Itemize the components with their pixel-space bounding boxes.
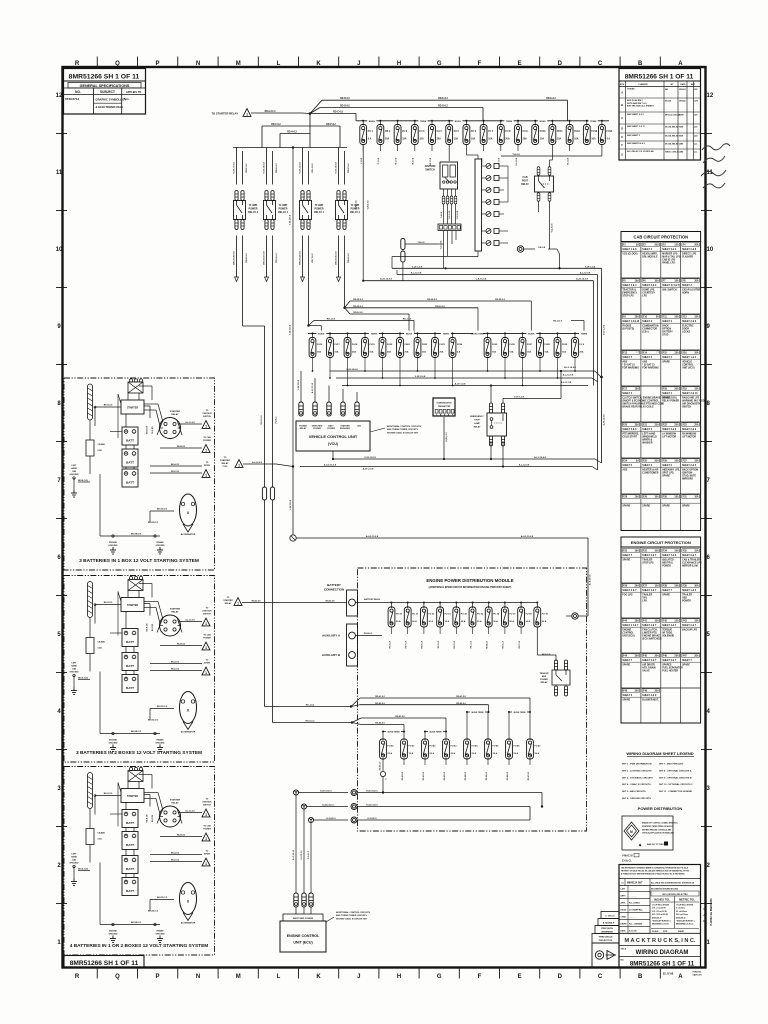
svg-text:FU20: FU20 [387, 344, 393, 346]
svg-text:F21: F21 [643, 425, 648, 427]
engine protection row y653 [621, 653, 701, 673]
wire E-24 run 2 [301, 804, 543, 821]
label left hand cab ground box 2 [70, 663, 79, 674]
svg-text:WASHER: WASHER [642, 442, 652, 445]
wire V-LF-1-0.8 to emergency relay [502, 399, 504, 404]
wire RD-42-5.0 epdm lower [352, 723, 361, 725]
wire RD-62-5.0 epdm [351, 705, 360, 707]
svg-text:GRAPHIC SYMBOLOGY: GRAPHIC SYMBOLOGY [96, 97, 127, 101]
title block top-left: 8MR51266 SH 1 OF 11 [64, 69, 146, 115]
svg-text:V-LF-1-0.8: V-LF-1-0.8 [514, 397, 525, 399]
starter box 3 [121, 782, 144, 803]
svg-text:FRAME: FRAME [156, 930, 164, 933]
svg-text:ABS: ABS [622, 360, 627, 363]
wire SP-A-5.0 from fuse 39 [536, 628, 538, 656]
svg-text:A-LF-2-0.8: A-LF-2-0.8 [363, 468, 374, 471]
svg-text:10A: 10A [674, 496, 679, 499]
svg-text:BR-29-46-0.8: BR-29-46-0.8 [233, 251, 236, 265]
svg-text:* *: * * [656, 353, 659, 355]
svg-text:FU 33: FU 33 [445, 614, 452, 616]
svg-text:FU 9: FU 9 [523, 131, 529, 133]
wire BK-DD cable box 1 [140, 509, 174, 525]
svg-text:SHEET 3 & 7: SHEET 3 & 7 [662, 660, 677, 662]
svg-text:SEE SHEET 4 & 5: SEE SHEET 4 & 5 [627, 113, 644, 116]
svg-text:STARTER: STARTER [127, 407, 138, 410]
fuse FU 42 20 A epdm row2 [422, 739, 437, 780]
svg-text:TERM: TERM [581, 333, 587, 335]
svg-text:BK-HB-1/0: BK-HB-1/0 [131, 534, 142, 536]
svg-text:10A: 10A [694, 496, 699, 499]
svg-text:30 A: 30 A [445, 620, 450, 623]
svg-text:SWITCH: SWITCH [203, 805, 211, 807]
engine protection row y618 [621, 618, 701, 641]
svg-text:DIRECT. LPS: DIRECT. LPS [682, 253, 697, 255]
buss term segment fuses 46 47 [508, 710, 531, 740]
grid column letters top [75, 61, 683, 67]
svg-text:25 A: 25 A [388, 752, 393, 755]
svg-text:C: C [598, 61, 603, 67]
svg-text:FU 5: FU 5 [454, 131, 460, 133]
wire relay 3 output to epdm cable [242, 236, 244, 327]
svg-text:CAB ID LPS: CAB ID LPS [662, 259, 675, 262]
svg-text:SHEET 7 & 9: SHEET 7 & 9 [662, 555, 677, 557]
svg-text:15A: 15A [694, 550, 699, 553]
buss term segment fuses 40 41 [382, 729, 405, 740]
svg-text:CIGAR LIGHTER: CIGAR LIGHTER [682, 288, 700, 291]
svg-text:BATTERY BUSS: BATTERY BUSS [364, 598, 381, 601]
svg-text:TO: TO [206, 660, 209, 662]
svg-text:EPDM: EPDM [204, 663, 210, 665]
svg-text:F12: F12 [683, 317, 688, 319]
svg-text:A-LJ-2-0.8: A-LJ-2-0.8 [185, 810, 194, 813]
svg-text:20A: 20A [635, 585, 640, 588]
fuse FU26 15A vcu row [502, 332, 516, 379]
svg-text:5A: 5A [656, 316, 659, 319]
svg-text:GENERAL SPECIFICATIONS: GENERAL SPECIFICATIONS [80, 84, 130, 88]
svg-text:V-MAC III: V-MAC III [622, 855, 633, 858]
svg-text:E-2-13-1.0: E-2-13-1.0 [301, 851, 303, 860]
svg-text:POWER: POWER [203, 440, 211, 442]
svg-text:SHOWN V-MAC III CIRCUIT SHT: SHOWN V-MAC III CIRCUIT SHT [336, 917, 368, 920]
svg-text:10A: 10A [674, 460, 679, 463]
svg-text:B: B [638, 61, 643, 67]
svg-text:POWER: POWER [540, 679, 548, 681]
svg-text:RD-K-5.0: RD-K-5.0 [454, 641, 456, 649]
svg-text:BLO RD: BLO RD [152, 426, 154, 434]
svg-text:UNIT (VCU): UNIT (VCU) [682, 368, 695, 370]
svg-text:ENGINE BRAKE: ENGINE BRAKE [642, 635, 660, 638]
svg-text:K: K [316, 974, 321, 980]
fuse FU19 10A vcu row [362, 332, 376, 372]
svg-text:HIDEAWAY LPS,: HIDEAWAY LPS, [662, 468, 680, 471]
svg-text:INCL (INCHES) SELECTED: INCL (INCHES) SELECTED [662, 894, 688, 896]
svg-text:20A: 20A [635, 690, 640, 693]
fusible link strip box 3 [88, 773, 93, 829]
svg-text:20A: 20A [579, 351, 583, 354]
svg-text:SHEET 5: SHEET 5 [622, 357, 632, 359]
svg-text:SPARE (VCU): SPARE (VCU) [662, 396, 677, 399]
svg-text:LD3: LD3 [694, 114, 697, 116]
wire fuse drop to ignition switch [448, 144, 450, 161]
svg-text:IGN. SWITCH: IGN. SWITCH [662, 289, 677, 291]
svg-text:20A: 20A [694, 280, 699, 283]
svg-text:RADIO IND LPS: RADIO IND LPS [682, 396, 700, 399]
svg-text:POWER: POWER [203, 638, 211, 640]
svg-text:ADDITIONAL CONTROL CIRCUITS: ADDITIONAL CONTROL CIRCUITS [387, 425, 422, 428]
svg-text:6T2G5712: 6T2G5712 [65, 97, 80, 101]
svg-text:SH 1-5B+5C, FU 31 RM 5-4B: SH 1-5B+5C, FU 31 RM 5-4B [627, 150, 654, 153]
svg-text:RD-B-6.0: RD-B-6.0 [364, 633, 373, 635]
ground left hand box 2 [71, 674, 90, 694]
svg-text:V-29-13-0.8: V-29-13-0.8 [290, 325, 292, 335]
svg-text:TRAILER: TRAILER [642, 593, 652, 596]
svg-text:WINDSHIELD: WINDSHIELD [642, 437, 657, 439]
svg-text:SHEET: SHEET [678, 931, 685, 933]
fusible link strip box 1 [88, 384, 93, 440]
svg-text:TO: TO [206, 851, 209, 853]
svg-text:P: P [155, 974, 159, 980]
svg-text:F47: F47 [683, 655, 688, 658]
svg-text:MIRROR ILUM.: MIRROR ILUM. [682, 566, 699, 568]
fuse FU20 20A vcu row [379, 332, 393, 379]
svg-text:SEE SHEETS 4 & 5: SEE SHEETS 4 & 5 [627, 142, 646, 145]
battery 2 box 2 [122, 653, 138, 671]
svg-text:2 PL .X =±.030 IN: 2 PL .X =±.030 IN [652, 908, 666, 910]
svg-text:T-A-0.8: T-A-0.8 [512, 153, 520, 156]
cab post relay K5 [521, 167, 553, 202]
svg-text:A-23-10-0.8: A-23-10-0.8 [380, 278, 392, 281]
svg-text:SPARES: SPARES [662, 663, 672, 666]
svg-text:F38: F38 [663, 586, 668, 588]
wire RD-61-5.0 epdm [265, 706, 352, 708]
svg-text:8: 8 [187, 709, 189, 713]
svg-text:BACKUP LPS: BACKUP LPS [682, 628, 697, 631]
svg-text:ABS: ABS [622, 468, 627, 471]
svg-text:10A: 10A [635, 280, 640, 283]
svg-text:SPARE: SPARE [642, 504, 650, 507]
engine protection row y548 [621, 549, 702, 568]
title block top-right: 8MR51266 SH 1 OF 11 revision table [619, 69, 701, 161]
triangle to cab power box 1 [160, 436, 211, 452]
frame ground symbol box 2 [156, 739, 165, 752]
battery 3 box 2 [122, 675, 138, 693]
svg-text:COMBINATION: COMBINATION [642, 324, 659, 327]
battery system enclosure 2 [64, 576, 215, 763]
engine ground symbol box 1 [109, 542, 118, 554]
svg-text:TRAILER: TRAILER [539, 672, 549, 675]
title block small grid rows [619, 886, 701, 934]
fuse FU25 10A vcu row [484, 332, 498, 372]
svg-text:20A: 20A [694, 244, 699, 247]
wires below ignition connector [441, 231, 457, 269]
svg-text:F19: F19 [683, 389, 688, 391]
wire right side vertical drop [601, 276, 603, 463]
svg-text:C4B: C4B [72, 470, 77, 473]
svg-text:BLO RD: BLO RD [152, 623, 154, 631]
svg-text:RD-M-5.0: RD-M-5.0 [487, 641, 489, 649]
triangle to ignition switch box 1 [178, 410, 212, 428]
wire starter to relay mesh box 3 [118, 775, 163, 827]
svg-text:F44: F44 [623, 655, 628, 658]
svg-text:OAMY-97S: OAMY-97S [692, 974, 702, 977]
svg-text:ABS: ABS [542, 675, 547, 678]
alternator box 2 [180, 692, 197, 734]
svg-text:10A: 10A [694, 352, 699, 355]
svg-text:F22: F22 [663, 425, 668, 427]
svg-text:COMMUNICATION: COMMUNICATION [436, 402, 452, 405]
svg-text:20A: 20A [674, 585, 679, 588]
wire long drop fuse 1 cab row [362, 144, 364, 281]
wiring diagram title [619, 949, 701, 957]
wire BK-H cable box 3 [94, 793, 121, 815]
svg-text:______: ______ [628, 917, 637, 919]
svg-text:RD-P-6.2: RD-P-6.2 [326, 124, 336, 126]
svg-text:BK-A-1/2: BK-A-1/2 [171, 463, 179, 466]
relay K2 70 amp power relay 2 [336, 191, 348, 230]
svg-text:0.5A: 0.5A [98, 647, 103, 650]
engine ground symbol box 2 [109, 740, 118, 752]
svg-text:FU 1: FU 1 [368, 131, 374, 133]
svg-text:(ADDITIONAL EPDM CIRCUIT INFOR: (ADDITIONAL EPDM CIRCUIT INFORMATION ON … [429, 586, 512, 589]
cab protection row y422 [621, 422, 701, 445]
fuse FU 4 20A cab row [429, 120, 443, 166]
svg-text:10A: 10A [369, 351, 373, 354]
svg-text:L: L [277, 61, 281, 67]
svg-text:TERM: TERM [590, 121, 596, 123]
warning note box with diamond [622, 816, 678, 850]
svg-text:NOTE BAR RM 7 & 5,: NOTE BAR RM 7 & 5, [627, 102, 647, 105]
vmac label [622, 854, 639, 863]
svg-text:JW9-4D: JW9-4D [679, 99, 686, 102]
svg-text:BUSS: BUSS [369, 121, 376, 123]
svg-text:AND THESE POWER CIRCUITS: AND THESE POWER CIRCUITS [336, 914, 367, 917]
engine circuit protection table [621, 537, 701, 723]
svg-text:20 A: 20 A [535, 752, 540, 755]
svg-text:ISOLATED: ISOLATED [662, 558, 674, 561]
svg-text:LOCKS: LOCKS [682, 332, 691, 334]
svg-text:ADD FU 44 RM 7,: ADD FU 44 RM 7, [627, 99, 644, 102]
fuse FU11 10A cab row [549, 120, 563, 145]
svg-text:20A: 20A [655, 244, 660, 247]
svg-text:G: G [437, 61, 442, 67]
svg-text:RD-41-5.0: RD-41-5.0 [395, 715, 405, 718]
svg-text:SHEET 2 & 8: SHEET 2 & 8 [682, 249, 697, 251]
battery 1 box 3 [122, 810, 138, 828]
svg-text:SEE SHEET 5: SEE SHEET 5 [627, 135, 641, 137]
fuse FU17 10A vcu row [327, 332, 341, 379]
svg-text:F17: F17 [623, 389, 628, 391]
svg-text:SWITCH: SWITCH [203, 614, 211, 616]
svg-text:FU-A-2: FU-A-2 [274, 416, 277, 424]
svg-text:GROUND: GROUND [109, 545, 118, 547]
svg-text:20A: 20A [439, 351, 443, 354]
node main power junction [309, 112, 312, 115]
starter box 1 [121, 393, 144, 414]
svg-text:TRANSMITTER: TRANSMITTER [438, 405, 451, 408]
svg-text:F13: F13 [623, 353, 628, 355]
svg-text:SHEET 2 & 7: SHEET 2 & 7 [622, 590, 637, 592]
svg-text:10A: 10A [574, 138, 579, 141]
svg-text:FAN CLUTCH,: FAN CLUTCH, [642, 628, 658, 631]
wire A-23-10-0.8 long run [363, 280, 593, 282]
svg-text:(VCU): (VCU) [328, 442, 339, 446]
svg-text:RD-D-6.2: RD-D-6.2 [438, 106, 448, 108]
svg-text:30 A: 30 A [428, 620, 433, 623]
svg-text:CHANGE: CHANGE [638, 83, 648, 86]
circuit breaker CB-84B box 2 [86, 638, 105, 672]
fuse CB 2 20A cab row [377, 120, 391, 164]
svg-text:S-(B+)-1.0: S-(B+)-1.0 [446, 431, 448, 441]
svg-text:ANGLES ±1°: ANGLES ±1° [652, 916, 662, 919]
svg-text:BK-DD-1/0: BK-DD-1/0 [157, 509, 168, 511]
svg-text:SPOT LPS,: SPOT LPS, [662, 473, 674, 475]
svg-text:ADDITIONAL CONTROL CIRCUITS: ADDITIONAL CONTROL CIRCUITS [336, 911, 371, 914]
svg-text:15A: 15A [674, 620, 679, 623]
svg-text:RELAY: RELAY [171, 611, 179, 614]
svg-text:CHKD: CHKD [621, 917, 627, 919]
svg-text:RD-T-6.2: RD-T-6.2 [312, 253, 314, 263]
svg-text:ABS: ABS [682, 597, 687, 600]
svg-text:TO: TO [206, 608, 209, 610]
svg-text:X =±0.8mm: X =±0.8mm [676, 908, 685, 910]
svg-text:FOG LPS: FOG LPS [622, 594, 633, 596]
svg-text:BUSS: BUSS [406, 333, 413, 335]
cab protection row y314 [621, 314, 701, 337]
svg-text:BWM: BWM [679, 114, 684, 116]
svg-text:SHEET 4: SHEET 4 [662, 392, 672, 395]
svg-text:BK-H-1/0: BK-H-1/0 [104, 405, 113, 407]
ground left hand box 3 [71, 865, 90, 885]
svg-text:AUXILARY B: AUXILARY B [322, 653, 341, 657]
svg-text:20 A: 20 A [509, 620, 514, 623]
svg-text:8: 8 [187, 900, 189, 904]
svg-text:D: D [558, 974, 563, 980]
svg-text:ALL: ALL [124, 97, 130, 101]
svg-text:STUD, NOTE: STUD, NOTE [682, 476, 696, 478]
wire E-2-4 run 3 [308, 817, 530, 823]
wire junction block feed from fuse [465, 144, 467, 155]
svg-text:D.CHAPPELL: D.CHAPPELL [629, 909, 644, 912]
vcu fuse bus wire [308, 332, 585, 334]
svg-text:VOIDED: VOIDED [627, 89, 635, 91]
bus labels BUSS TERM vcu row [316, 331, 589, 336]
svg-text:LIFT MOTOR: LIFT MOTOR [662, 437, 676, 439]
svg-text:AIR DIAGNOSTIC: AIR DIAGNOSTIC [682, 403, 701, 406]
svg-text:TO: TO [227, 597, 230, 599]
svg-text:10A: 10A [635, 550, 640, 553]
svg-text:20 A: 20 A [493, 752, 498, 755]
svg-text:DOOR: DOOR [682, 329, 689, 331]
svg-text:H: H [397, 61, 401, 67]
svg-text:CLEARANCE LPS: CLEARANCE LPS [682, 562, 702, 565]
svg-text:SHEET 1 4 & 7: SHEET 1 4 & 7 [622, 624, 639, 627]
svg-text:V-29-18-0.8: V-29-18-0.8 [264, 162, 266, 174]
svg-text:1 N UP WILL SHOWN: 1 N UP WILL SHOWN [652, 905, 670, 907]
battery interconnect wires box 1 [110, 414, 134, 469]
svg-text:E-20-10-D.0: E-20-10-D.0 [320, 791, 332, 793]
svg-text:A-LJ-2-0.8: A-LJ-2-0.8 [185, 421, 194, 424]
fuse FU13 10A cab row [583, 120, 597, 145]
fuse FU 31 20 A epdm row1 [404, 602, 419, 649]
wire V-29-13-0.8 bottom run [333, 458, 595, 460]
svg-text:20A: 20A [385, 138, 390, 141]
svg-text:JMM: JMM [679, 143, 683, 145]
svg-text:20A: 20A [437, 138, 442, 141]
svg-text:FU 30: FU 30 [396, 614, 403, 616]
fuse FU 33 30 A epdm row1 [437, 602, 452, 649]
svg-text:MC11B JW9-4W: MC11B JW9-4W [665, 134, 679, 137]
svg-text:FUEL SEPARATOR: FUEL SEPARATOR [662, 667, 683, 670]
frame ground symbol box 3 [156, 930, 165, 943]
svg-text:30 A: 30 A [461, 620, 466, 623]
svg-text:SHT 9 - OPTIONAL CIRCUITS B: SHT 9 - OPTIONAL CIRCUITS B [659, 776, 692, 779]
svg-text:RD-47-5.0: RD-47-5.0 [527, 772, 530, 780]
svg-text:BK-H-1/0: BK-H-1/0 [104, 602, 113, 604]
svg-text:RD-J-6.2: RD-J-6.2 [312, 163, 314, 173]
svg-text:IGN: IGN [357, 426, 361, 428]
svg-text:RD-W-5.2: RD-W-5.2 [495, 299, 505, 301]
svg-text:FU27: FU27 [527, 344, 533, 346]
svg-text:25A: 25A [674, 424, 679, 427]
svg-text:V-21-2-0.8: V-21-2-0.8 [457, 211, 459, 219]
title block bottom-left repeat [64, 956, 144, 968]
svg-text:F37: F37 [643, 586, 648, 588]
svg-text:GROUND: GROUND [70, 474, 79, 476]
svg-text:E-2-4-D.0: E-2-4-D.0 [367, 817, 377, 820]
svg-text:* ANGULAR RUNOUT ±: * ANGULAR RUNOUT ± [676, 920, 695, 923]
svg-text:RELAY 4: RELAY 4 [278, 211, 289, 214]
svg-text:SHEET 1 & 4: SHEET 1 & 4 [682, 356, 697, 359]
vcu connector pins [299, 395, 359, 416]
third angle projection symbol [595, 951, 616, 960]
battery 2 box 1 [122, 449, 138, 467]
svg-text:R.L. LISMAN: R.L. LISMAN [629, 923, 643, 926]
svg-text:K: K [316, 61, 321, 67]
svg-text:FU 32: FU 32 [428, 614, 435, 616]
svg-text:V-29-13-0.8: V-29-13-0.8 [290, 215, 292, 225]
svg-text:POWER: POWER [682, 601, 691, 603]
fuse FU 35 20 A epdm row1 [469, 602, 484, 649]
svg-text:FU18: FU18 [352, 344, 358, 346]
svg-text:BACK: BACK [662, 324, 669, 327]
svg-text:12: 12 [56, 93, 63, 99]
wire E-20 run 1 [293, 790, 542, 807]
wire RD-W-5.2 branch middle [345, 307, 479, 309]
svg-text:W-1-0.8: W-1-0.8 [567, 158, 569, 165]
alternator box 1 [180, 494, 197, 536]
svg-text:PTE MIRRORS,: PTE MIRRORS, [622, 433, 639, 435]
svg-text:FRAME: FRAME [156, 739, 164, 742]
svg-text:CAB: CAB [523, 176, 528, 179]
fuse FU27 15A vcu row [519, 332, 533, 386]
svg-text:CONDITIONER: CONDITIONER [642, 473, 658, 475]
svg-text:10A: 10A [635, 496, 640, 499]
svg-text:* *: * * [636, 353, 639, 355]
svg-text:SHT 7 - ENG PWR DIST: SHT 7 - ENG PWR DIST [659, 764, 684, 766]
svg-text:FU24: FU24 [457, 343, 463, 346]
circuit breaker CB-84B box 3 [86, 829, 105, 863]
label left hand cab ground box 3 [70, 854, 79, 865]
svg-text:JMM: JMM [679, 151, 683, 153]
svg-text:10A: 10A [655, 550, 660, 553]
svg-text:BUSS TERM: BUSS TERM [430, 732, 442, 734]
svg-text:M: M [236, 61, 241, 67]
battery 3 box 3 [122, 856, 138, 874]
svg-text:20A: 20A [674, 655, 679, 658]
svg-text:BK-DD-1/0: BK-DD-1/0 [157, 706, 168, 708]
svg-text:ABS: ABS [642, 360, 647, 363]
svg-text:SPARE: SPARE [622, 504, 630, 507]
